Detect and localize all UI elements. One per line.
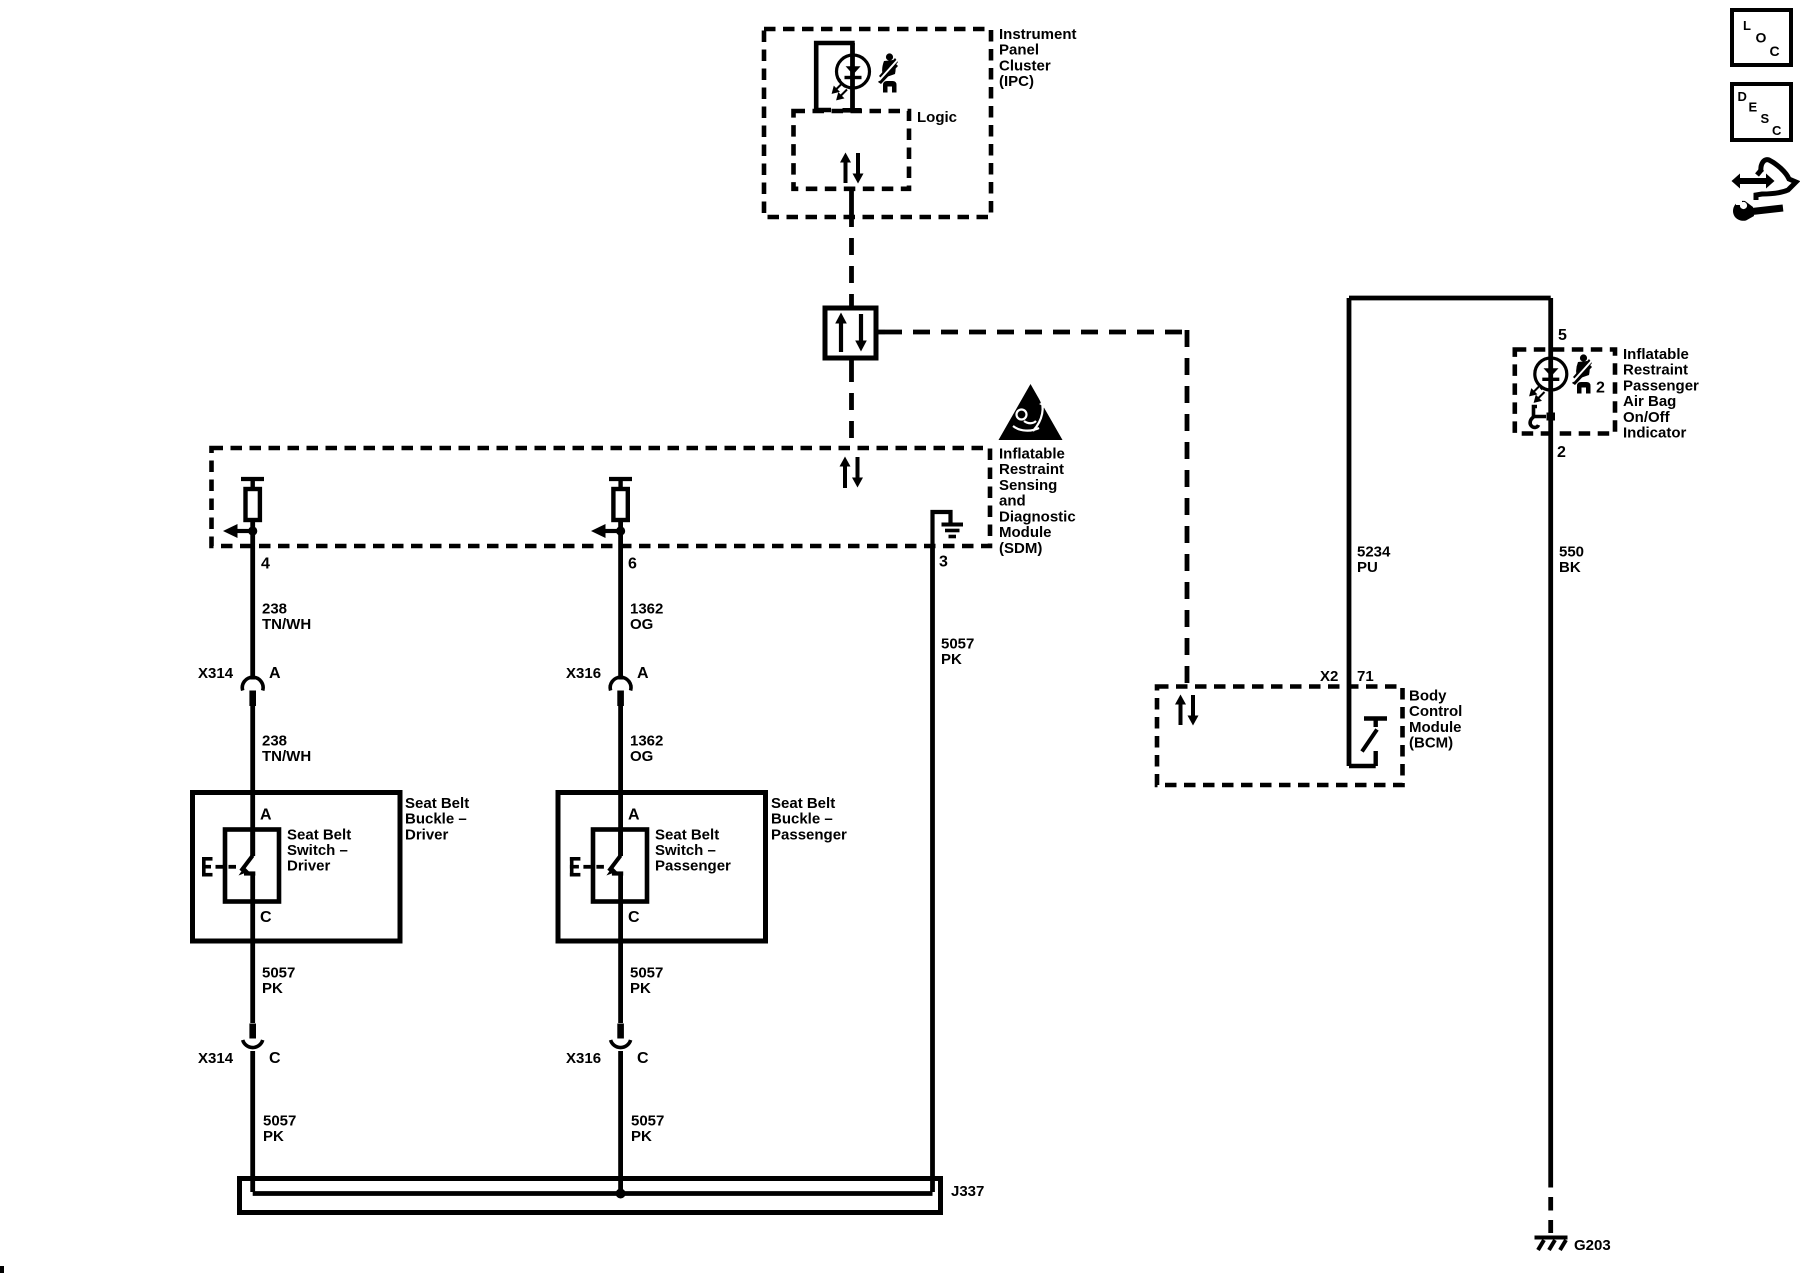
wire 5057 PK (driver, below buckle) bbox=[250, 901, 255, 1023]
indicator diode triangle bbox=[1544, 368, 1559, 376]
svg-text:4: 4 bbox=[261, 556, 270, 573]
IPC dashed box bbox=[764, 29, 991, 217]
svg-text:Inflatable: Inflatable bbox=[999, 445, 1065, 462]
svg-text:Passenger: Passenger bbox=[655, 858, 731, 875]
svg-text:G203: G203 bbox=[1574, 1237, 1611, 1254]
svg-text:PU: PU bbox=[1357, 559, 1378, 576]
svg-text:Instrument: Instrument bbox=[999, 26, 1077, 43]
LED diode triangle bbox=[846, 66, 861, 74]
wire: IPC to connector (dashed) bbox=[849, 238, 854, 308]
wire 5057 PK (passenger, below buckle) bbox=[618, 901, 623, 1023]
SDM internal ground (pin 3) bbox=[933, 512, 964, 546]
SDM dashed box bbox=[212, 448, 991, 546]
svg-text:5057: 5057 bbox=[262, 965, 295, 982]
svg-text:X2: X2 bbox=[1320, 668, 1338, 685]
indicator LED wire bbox=[850, 43, 855, 110]
svg-text:Driver: Driver bbox=[287, 858, 331, 875]
svg-text:Logic: Logic bbox=[917, 109, 957, 126]
svg-text:Passenger: Passenger bbox=[1623, 377, 1699, 394]
svg-text:TN/WH: TN/WH bbox=[262, 748, 311, 765]
svg-text:L: L bbox=[1743, 18, 1751, 33]
svg-text:1362: 1362 bbox=[630, 733, 663, 750]
svg-text:550: 550 bbox=[1559, 544, 1584, 561]
svg-text:Switch –: Switch – bbox=[655, 842, 716, 859]
connector X316 A bbox=[566, 665, 649, 706]
svg-text:A: A bbox=[260, 807, 272, 824]
svg-text:X316: X316 bbox=[566, 1050, 601, 1067]
svg-text:C: C bbox=[1772, 123, 1782, 138]
svg-text:71: 71 bbox=[1357, 668, 1374, 685]
svg-text:A: A bbox=[269, 665, 281, 682]
SDM arrows bbox=[840, 457, 864, 489]
svg-text:BK: BK bbox=[1559, 559, 1581, 576]
svg-text:E: E bbox=[1749, 100, 1758, 115]
wire 238 TN/WH (upper) bbox=[250, 546, 255, 680]
svg-text:(SDM): (SDM) bbox=[999, 540, 1042, 557]
wire 5057 PK (right column) bbox=[930, 546, 935, 1192]
svg-text:Body: Body bbox=[1409, 688, 1447, 705]
seat belt switch passenger: inner box bbox=[593, 830, 647, 902]
svg-text:Passenger: Passenger bbox=[771, 826, 847, 843]
svg-text:C: C bbox=[269, 1050, 281, 1067]
svg-text:Restraint: Restraint bbox=[1623, 362, 1688, 379]
svg-text:Switch –: Switch – bbox=[287, 842, 348, 859]
wire: connector to BCM (dashed), right then down bbox=[876, 330, 885, 335]
seat belt person icon (indicator) bbox=[1572, 354, 1592, 393]
indicator lamp bracket in IPC bbox=[816, 43, 855, 110]
LED light arrows bbox=[833, 79, 847, 100]
BCM label bbox=[1409, 688, 1462, 752]
svg-text:C: C bbox=[628, 909, 640, 926]
svg-text:Restraint: Restraint bbox=[999, 461, 1064, 478]
svg-text:Buckle –: Buckle – bbox=[771, 811, 833, 828]
LOC box bbox=[1732, 10, 1791, 65]
resistor (driver, pin 4) bbox=[223, 479, 264, 546]
Seat Belt Buckle - Driver box bbox=[193, 793, 401, 942]
svg-text:1362: 1362 bbox=[630, 601, 663, 618]
svg-text:Driver: Driver bbox=[405, 826, 449, 843]
curvy outline arrow bbox=[1756, 160, 1796, 200]
svg-text:5234: 5234 bbox=[1357, 544, 1391, 561]
svg-text:Seat Belt: Seat Belt bbox=[771, 795, 835, 812]
double headed arrow bbox=[1738, 178, 1768, 184]
connector X314 A bbox=[198, 665, 281, 706]
svg-text:Sensing: Sensing bbox=[999, 477, 1057, 494]
svg-text:X316: X316 bbox=[566, 665, 601, 682]
svg-text:PK: PK bbox=[262, 980, 283, 997]
top wire across bbox=[1349, 296, 1551, 301]
svg-text:PK: PK bbox=[263, 1128, 284, 1145]
BCM arrows bbox=[1175, 695, 1199, 726]
svg-text:Seat Belt: Seat Belt bbox=[655, 826, 719, 843]
svg-text:Inflatable: Inflatable bbox=[1623, 346, 1689, 363]
svg-text:X314: X314 bbox=[198, 1050, 234, 1067]
svg-text:5057: 5057 bbox=[631, 1113, 664, 1130]
svg-text:Air Bag: Air Bag bbox=[1623, 393, 1676, 410]
svg-text:O: O bbox=[1756, 30, 1767, 46]
BCM dashed box bbox=[1157, 687, 1403, 786]
SDM label bbox=[999, 445, 1076, 557]
DESC box bbox=[1732, 84, 1791, 140]
seat belt switch driver: inner box bbox=[225, 830, 279, 902]
svg-text:X314: X314 bbox=[198, 665, 234, 682]
svg-text:S: S bbox=[1761, 111, 1770, 126]
svg-text:OG: OG bbox=[630, 748, 653, 765]
svg-text:Indicator: Indicator bbox=[1623, 425, 1687, 442]
svg-text:On/Off: On/Off bbox=[1623, 409, 1671, 426]
IPC label bbox=[999, 26, 1077, 90]
Air Bag indicator dashed box bbox=[1515, 350, 1615, 434]
warning triangle bbox=[999, 384, 1063, 440]
LED cathode bar bbox=[845, 76, 862, 79]
svg-text:2: 2 bbox=[1557, 444, 1566, 461]
indicator cathode bar bbox=[1542, 378, 1559, 381]
svg-text:and: and bbox=[999, 493, 1026, 510]
svg-text:5: 5 bbox=[1558, 327, 1567, 344]
ground G203 bbox=[1535, 1238, 1568, 1251]
svg-text:C: C bbox=[637, 1050, 649, 1067]
wire 550 BK down from top bbox=[1548, 298, 1553, 1174]
connector X316 C bbox=[566, 1024, 649, 1197]
svg-text:Buckle –: Buckle – bbox=[405, 811, 467, 828]
logic up/down arrows bbox=[840, 153, 864, 184]
svg-text:D: D bbox=[1738, 89, 1747, 104]
Seat Belt Buckle - Passenger box bbox=[558, 793, 766, 942]
svg-text:(IPC): (IPC) bbox=[999, 73, 1034, 90]
connector X314 C bbox=[198, 1024, 281, 1193]
svg-text:Seat Belt: Seat Belt bbox=[405, 795, 469, 812]
svg-text:C: C bbox=[1770, 43, 1780, 59]
svg-text:PK: PK bbox=[630, 980, 651, 997]
svg-text:238: 238 bbox=[262, 733, 287, 750]
indicator LED circle bbox=[1535, 358, 1567, 390]
inline connector box bbox=[825, 308, 876, 358]
resistor (passenger, pin 6) bbox=[591, 479, 632, 546]
svg-text:(BCM): (BCM) bbox=[1409, 735, 1453, 752]
svg-text:A: A bbox=[628, 807, 640, 824]
svg-text:TN/WH: TN/WH bbox=[262, 616, 311, 633]
BCM wire 5234 PU vertical bbox=[1347, 298, 1352, 766]
svg-text:Module: Module bbox=[1409, 719, 1462, 736]
switch driver internals bbox=[202, 829, 255, 901]
page artifact dot bbox=[0, 1266, 4, 1273]
svg-text:PK: PK bbox=[941, 651, 962, 668]
BCM internal switch bbox=[1349, 719, 1387, 767]
splice pack J337 bbox=[240, 1179, 941, 1213]
svg-text:Control: Control bbox=[1409, 703, 1462, 720]
wrench bbox=[1752, 208, 1783, 212]
svg-text:PK: PK bbox=[631, 1128, 652, 1145]
E linkage bbox=[570, 857, 574, 877]
wire 238 TN/WH (lower) bbox=[250, 706, 255, 856]
wire 1362 OG (upper) bbox=[618, 546, 623, 680]
navigation icon bbox=[1732, 160, 1797, 221]
svg-text:A: A bbox=[637, 665, 649, 682]
indicator LED circle bbox=[837, 55, 870, 88]
svg-text:Seat Belt: Seat Belt bbox=[287, 826, 351, 843]
wire: logic to IPC edge (solid) bbox=[849, 188, 854, 227]
connector box arrows bbox=[835, 313, 867, 353]
svg-text:238: 238 bbox=[262, 601, 287, 618]
svg-text:5057: 5057 bbox=[263, 1113, 296, 1130]
svg-text:OG: OG bbox=[630, 616, 653, 633]
indicator hook element bbox=[1530, 407, 1546, 428]
svg-text:C: C bbox=[260, 909, 272, 926]
svg-text:5057: 5057 bbox=[941, 636, 974, 653]
svg-text:Cluster: Cluster bbox=[999, 57, 1051, 74]
svg-text:6: 6 bbox=[628, 556, 637, 573]
svg-text:3: 3 bbox=[939, 554, 948, 571]
ground wire dashed tail bbox=[1548, 1174, 1553, 1233]
svg-text:Module: Module bbox=[999, 524, 1052, 541]
svg-text:2: 2 bbox=[1596, 380, 1605, 397]
svg-text:J337: J337 bbox=[951, 1183, 984, 1200]
switch passenger internals bbox=[570, 829, 623, 901]
E linkage bbox=[202, 857, 206, 877]
svg-text:Diagnostic: Diagnostic bbox=[999, 508, 1076, 525]
wire: connector to SDM (dashed) bbox=[849, 358, 854, 365]
seat belt person icon (IPC) bbox=[878, 53, 898, 92]
Logic dashed box bbox=[794, 111, 910, 189]
svg-text:Panel: Panel bbox=[999, 42, 1039, 59]
svg-text:5057: 5057 bbox=[630, 965, 663, 982]
wire 1362 OG (lower) bbox=[618, 706, 623, 856]
indicator light arrows bbox=[1531, 381, 1545, 402]
indicator label bbox=[1623, 346, 1699, 442]
